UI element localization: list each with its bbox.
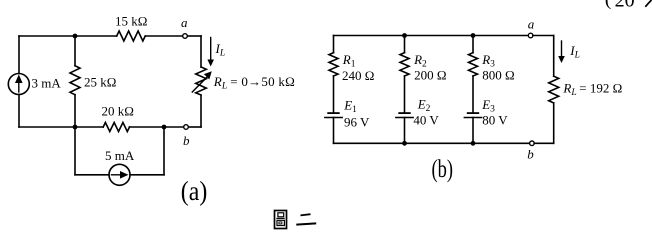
branch 3 wire middle [472, 76, 474, 113]
junction dot bottom branch3 [471, 141, 476, 146]
svg-text:20: 20 [615, 0, 635, 11]
branch 1 wire lower [333, 118, 335, 144]
svg-text:40 V: 40 V [413, 112, 439, 127]
svg-text:IL: IL [569, 43, 580, 61]
svg-text:E1: E1 [343, 98, 357, 116]
current source I1 3 mA circle [8, 74, 29, 95]
bottom wire right segment (a) [130, 126, 165, 128]
wire node a to corner [187, 35, 201, 37]
right wire upper (b) [553, 36, 555, 77]
resistor 20 kOhm zigzag [103, 123, 129, 132]
junction dot (75,127) [73, 125, 78, 130]
caption char Er (two) [296, 214, 316, 224]
right wire lower (b) [553, 103, 555, 143]
wire left vertical upper (circuit a) [18, 36, 20, 74]
svg-text:800 Ω: 800 Ω [482, 68, 514, 83]
resistor R3 zigzag [469, 53, 478, 76]
branch 2 wire middle [404, 76, 406, 113]
branch 2 wire upper [404, 36, 406, 53]
IL arrow (b) [561, 41, 563, 58]
svg-text:RL = 192 Ω: RL = 192 Ω [562, 81, 622, 99]
svg-text:5 mA: 5 mA [105, 148, 135, 163]
bottom wire left segment (a) [19, 126, 103, 128]
node b (circuit a) open circle [184, 125, 189, 130]
wire top left segment [19, 35, 117, 37]
wire 5mA loop bottom right [130, 174, 164, 176]
rheostat arrow (a) [192, 77, 207, 92]
caption char Tu (figure) [275, 211, 287, 229]
current source I1 arrow [18, 79, 20, 92]
battery E3 long plate [464, 117, 481, 119]
svg-text:a: a [181, 15, 188, 30]
svg-text:20 kΩ: 20 kΩ [102, 104, 134, 119]
wire top right segment to node a [145, 35, 182, 37]
branch 1 wire middle [333, 76, 335, 113]
svg-text:b: b [527, 147, 534, 162]
wire 5mA loop bottom left [75, 174, 109, 176]
svg-text:IL: IL [215, 41, 226, 59]
svg-text:R1: R1 [342, 52, 356, 70]
branch 3 wire lower [472, 118, 474, 144]
header char Fen partial stroke [645, 0, 651, 7]
svg-text:3 mA: 3 mA [32, 76, 62, 91]
wire 25k branch upper [74, 36, 76, 66]
resistor R2 zigzag [400, 53, 409, 76]
resistor 15 kOhm zigzag [117, 31, 146, 41]
junction dot bottom branch2 [402, 141, 407, 146]
resistor RL zigzag (b) [549, 76, 559, 103]
wire 25k branch lower [74, 95, 76, 127]
battery E3 short plate [468, 112, 479, 114]
svg-text:240 Ω: 240 Ω [342, 68, 374, 83]
bottom wire (circuit b) [334, 142, 530, 144]
node a (circuit b) open circle [528, 33, 533, 38]
wire right vertical lower (a) [200, 95, 202, 127]
junction dot top branch2 [402, 33, 407, 38]
wire corner to node b [188, 126, 201, 128]
junction dot top (75,36) [73, 34, 78, 39]
svg-text:200 Ω: 200 Ω [414, 68, 446, 83]
svg-text:a: a [528, 17, 535, 32]
wire node b to bottom right corner (b) [534, 142, 554, 144]
wire right vertical upper (a) [200, 36, 202, 67]
junction dot (164,127) [162, 125, 167, 130]
node b (circuit b) open circle [530, 141, 535, 146]
battery E1 short plate [328, 112, 339, 114]
rheostat RL zigzag (a) [196, 67, 207, 95]
wire node a to top right corner (b) [533, 35, 554, 37]
wire node b to junction [164, 126, 184, 128]
svg-text:25 kΩ: 25 kΩ [84, 75, 116, 90]
svg-text:b: b [183, 133, 190, 148]
branch 3 wire upper [472, 36, 474, 53]
wire 5mA loop left vertical [74, 127, 76, 175]
wire left vertical lower [18, 95, 20, 128]
svg-text:(: ( [605, 0, 612, 10]
current source I2 arrow [112, 174, 125, 176]
top wire (circuit b) [334, 35, 529, 37]
resistor 25 kOhm zigzag [70, 66, 80, 95]
IL arrow (a) [210, 38, 212, 62]
svg-text:96 V: 96 V [344, 115, 370, 130]
node a (circuit a) open circle [183, 34, 188, 39]
battery E2 short plate [399, 112, 410, 114]
current source I2 5 mA circle [109, 164, 130, 185]
battery E2 long plate [396, 117, 413, 119]
junction dot top branch3 [471, 33, 476, 38]
branch 2 wire lower [404, 118, 406, 144]
svg-text:(b): (b) [432, 156, 454, 183]
svg-text:15 kΩ: 15 kΩ [115, 14, 147, 29]
branch 1 wire upper [333, 36, 335, 53]
svg-text:(a): (a) [181, 176, 208, 206]
battery E1 long plate [325, 117, 342, 119]
resistor R1 zigzag [329, 53, 338, 76]
svg-text:80 V: 80 V [482, 113, 508, 128]
wire 5mA loop right vertical [163, 127, 165, 175]
svg-text:RL = 0→50 kΩ: RL = 0→50 kΩ [213, 74, 295, 92]
